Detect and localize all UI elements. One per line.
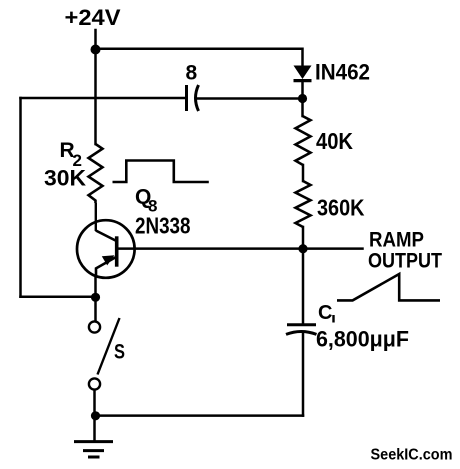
- svg-text:360K: 360K: [317, 195, 365, 221]
- svg-text:SeekIC.com: SeekIC.com: [371, 447, 453, 464]
- junction dot below diode: [298, 94, 307, 103]
- svg-text:30K: 30K: [44, 166, 86, 191]
- diode CR1 1N462 (filled triangle + bar): [294, 66, 312, 80]
- wire: bottom rail from ground junction to C1 column: [96, 414, 304, 417]
- switch S top terminal: [89, 321, 100, 332]
- junction dot at ramp output node: [298, 244, 307, 253]
- capacitor C1 bottom curved plate: [286, 332, 317, 335]
- svg-text:2N338: 2N338: [135, 213, 191, 239]
- junction dot at ground node: [91, 411, 100, 420]
- resistor R2 30K zigzag: [89, 144, 103, 203]
- svg-text:RAMP: RAMP: [369, 229, 424, 252]
- wire: switch bottom terminal down to ground junction: [93, 390, 96, 442]
- svg-text:8: 8: [186, 62, 198, 85]
- wire: 360K bottom to output node: [302, 227, 305, 249]
- wire: capacitor right lead to diode cathode junction: [197, 97, 303, 100]
- wire: output line from base bar to right: [117, 247, 363, 250]
- transistor collector diagonal: [96, 231, 117, 242]
- wire: left bottom horizontal to emitter junction: [21, 296, 96, 299]
- transistor Q8 2N338 circle: [77, 220, 135, 278]
- wire: between 40K and 360K: [302, 165, 305, 181]
- svg-text:6,800μμF: 6,800μμF: [316, 327, 409, 352]
- resistor 360K zigzag: [296, 181, 311, 227]
- resistor 40K zigzag: [296, 116, 311, 165]
- capacitor C1 top straight plate: [287, 323, 316, 326]
- transistor emitter diagonal: [96, 257, 117, 277]
- transistor emitter arrow: [102, 255, 115, 265]
- junction dot at +24V rail: [91, 45, 101, 55]
- waveform: ramp output: [337, 274, 440, 300]
- svg-text:OUTPUT: OUTPUT: [368, 250, 442, 273]
- wire: left vertical wire: [19, 98, 22, 297]
- waveform: input pulse: [113, 161, 209, 183]
- switch S blade: [98, 318, 120, 375]
- junction dot at emitter node: [91, 293, 100, 302]
- svg-text:IN462: IN462: [315, 60, 370, 85]
- wire: emitter junction down to switch top terminal: [94, 277, 97, 322]
- wire: second rail from left wire to capacitor left plate: [21, 97, 186, 100]
- wire: +24V lead down through top-rail junction to R2 top: [94, 30, 97, 144]
- switch S bottom terminal: [89, 378, 100, 389]
- wire: diode cathode down to 40K top: [301, 81, 304, 116]
- ground symbol: [74, 440, 113, 443]
- svg-text:40K: 40K: [316, 128, 353, 154]
- wire: output node down to C1 top plate: [302, 249, 305, 324]
- svg-text:C: C: [318, 302, 332, 324]
- wire: C1 bottom plate down to bottom rail: [302, 334, 305, 416]
- capacitor 8 (left straight plate, right curved plate): [185, 85, 188, 111]
- svg-text:S: S: [114, 341, 125, 364]
- svg-text:+24V: +24V: [65, 5, 121, 30]
- transistor base bar: [115, 236, 119, 266]
- wire: top +24V rail going right then down to diode anode: [96, 49, 303, 66]
- wire: R2 bottom to transistor collector: [95, 203, 97, 231]
